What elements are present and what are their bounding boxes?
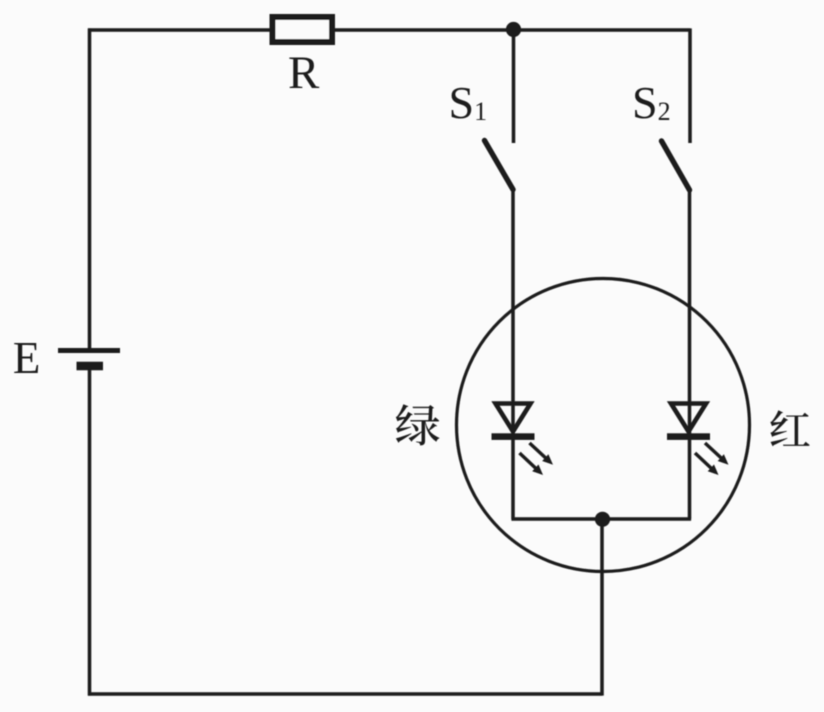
svg-text:R: R [288, 47, 320, 99]
svg-text:E: E [13, 333, 41, 383]
